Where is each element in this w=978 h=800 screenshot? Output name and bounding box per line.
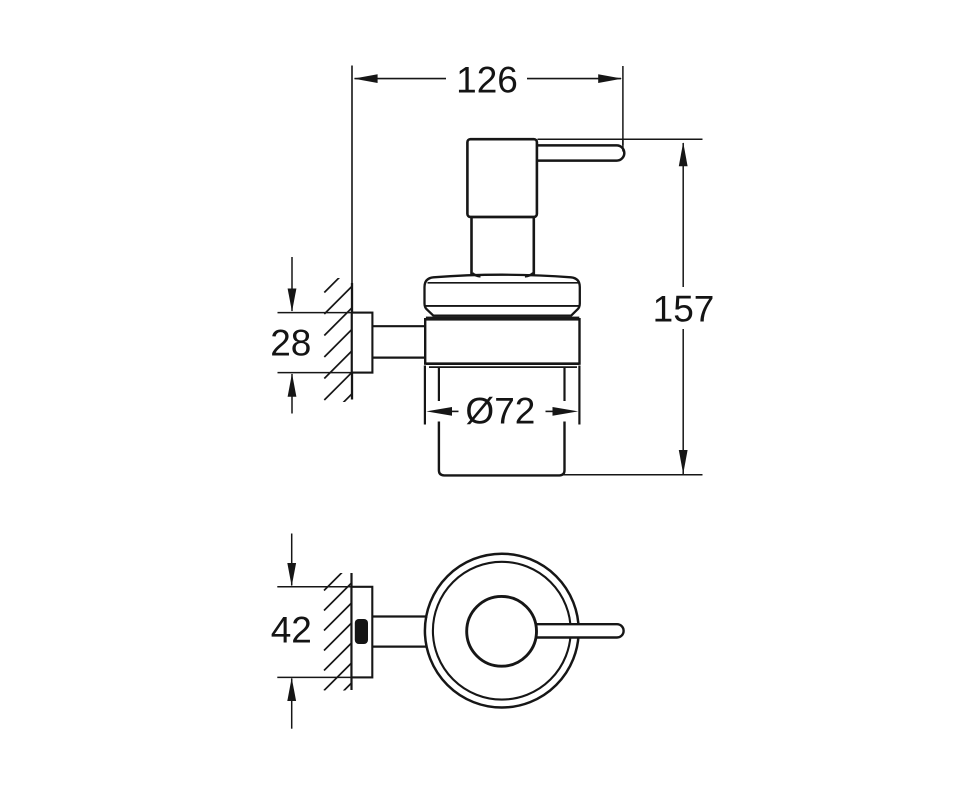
wall edge (side view) [351,283,353,400]
arrowhead top of dim 157 [679,142,688,166]
glass outer wall left [424,366,426,425]
holder ring left edge [424,318,426,365]
holder inner circle [433,562,571,700]
shoulder highlight line upper [428,282,579,284]
svg-text:126: 126 [456,59,518,100]
holder ring bottom thick line [426,362,579,365]
wire: extension line tail over lever cap [622,139,624,152]
arrowhead right of dim Ø72 [553,407,579,416]
arrowhead up of dim 28 [288,373,297,396]
dim 42 lower line [291,678,293,728]
pump lever (side view) [528,145,624,160]
dim 157 vertical line lower [682,329,684,474]
glass inner wall right upper [563,368,565,402]
shoulder-neck fillet left [472,273,480,276]
holder ring right edge [578,318,580,365]
pump head [467,139,537,217]
pump lever (top view) [528,624,624,637]
glass body and bottom [439,422,565,476]
dim Ø72 line right [546,410,553,412]
pump neck [472,217,534,276]
arrowhead right of dim 126 [598,74,622,83]
wall hatching (side view) [324,265,352,422]
mounting arm top line (side view) [372,325,424,327]
dim 42 top tick [277,586,351,588]
bracket plate (side view) [352,313,373,373]
glass outer wall right [578,366,580,425]
dim 157 bottom tick [561,474,703,476]
svg-text:157: 157 [653,289,715,330]
dim 157 top tick [538,138,703,140]
wire: extension line left of dim 126 (wall axis) [351,66,353,313]
pump cap circle (top view) [467,596,537,666]
screw blob on plate [355,619,368,644]
wall hatching (top view) [324,563,352,711]
arrowhead up of dim 42 [287,678,296,701]
dim 28 top tick [278,312,352,314]
svg-text:Ø72: Ø72 [465,391,535,432]
svg-text:42: 42 [271,610,312,651]
shoulder lower edge line [425,305,580,307]
mounting arm top line (top view) [372,615,427,617]
arrowhead down of dim 28 [288,289,297,312]
dim 28 upper line [291,257,293,311]
holder ring bottom thin line [429,366,577,368]
bracket plate (top view) [352,587,373,678]
svg-text:28: 28 [270,322,311,363]
arrowhead left of dim 126 [354,74,378,83]
dim 42 upper line [291,534,293,586]
dim 42 bottom tick [277,676,351,678]
mounting arm bottom line (side view) [372,357,424,359]
mounting arm bottom line (top view) [372,645,427,647]
dim 157 vertical line upper [682,143,684,287]
glass inner wall left upper [438,368,440,402]
wall edge (top view) [350,573,352,690]
dimension 126: line, arrows, right extension [355,78,622,80]
arrowhead down of dim 42 [287,563,296,586]
wire: extension line right of dim 126 [622,66,624,145]
dim Ø72 line left [452,410,459,412]
shoulder-neck fillet right [525,273,533,276]
holder outer circle [425,554,579,708]
holder ring top band (side view) [426,317,579,321]
dim 28 bottom tick [278,372,373,374]
arrowhead bottom of dim 157 [679,450,688,474]
dim 28 lower line [291,374,293,414]
arrowhead left of dim Ø72 [426,407,452,416]
bottle shoulder [425,275,580,316]
